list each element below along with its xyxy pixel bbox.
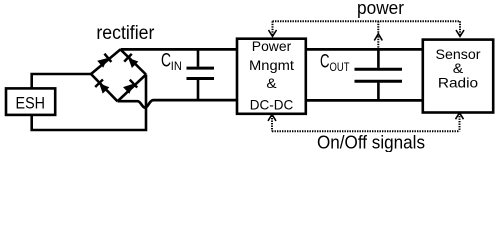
svg-text:ESH: ESH [16, 93, 46, 112]
svg-text:Power: Power [252, 38, 292, 54]
wire ESH top terminal to bridge left node [32, 74, 91, 88]
svg-text:DC-DC: DC-DC [250, 97, 294, 113]
label COUT [320, 52, 350, 75]
diode D1 top-left [91, 49, 121, 74]
wire top rail right (power block to sensor block) [306, 48, 423, 51]
svg-text:C: C [320, 52, 330, 73]
svg-text:OUT: OUT [330, 60, 351, 74]
wire ESH bottom terminal to bridge right node [32, 75, 146, 131]
wire bottom rail right (power block to sensor block) [306, 99, 423, 102]
diode D3 bottom-left [91, 74, 118, 101]
block Sensor Radio [423, 40, 493, 113]
wire top rail left (bridge + output to power block) [121, 48, 238, 51]
svg-text:Radio: Radio [438, 74, 479, 90]
label CIN [161, 51, 182, 74]
svg-text:&: & [266, 75, 277, 91]
dotted power stub into power block with down arrowhead [269, 21, 277, 36]
svg-text:rectifier: rectifier [96, 23, 155, 44]
dotted power stub from output rail with up arrowhead [374, 21, 382, 48]
dotted on/off stub into power block bottom with up arrowhead [268, 114, 276, 131]
block ESH [6, 88, 55, 115]
svg-text:Mngmt: Mngmt [249, 57, 294, 73]
svg-text:C: C [161, 51, 171, 72]
svg-text:power: power [357, 0, 404, 18]
svg-text:IN: IN [171, 59, 182, 73]
dotted power distribution line horizontal [273, 20, 461, 22]
svg-text:On/Off signals: On/Off signals [317, 131, 425, 152]
dotted power stub into sensor block with down arrowhead [456, 21, 464, 36]
wire bottom rail left with hop over ESH wire [118, 100, 238, 108]
diode D2 top-right [121, 49, 147, 74]
capacitor CIN [187, 49, 215, 100]
dotted on/off stub into sensor block bottom with up arrowhead [456, 113, 464, 132]
block Power Mngmt DC-DC [237, 38, 306, 114]
dotted on/off signals line horizontal [272, 130, 460, 132]
diode D4 bottom-right [118, 75, 147, 102]
capacitor COUT [355, 49, 403, 100]
